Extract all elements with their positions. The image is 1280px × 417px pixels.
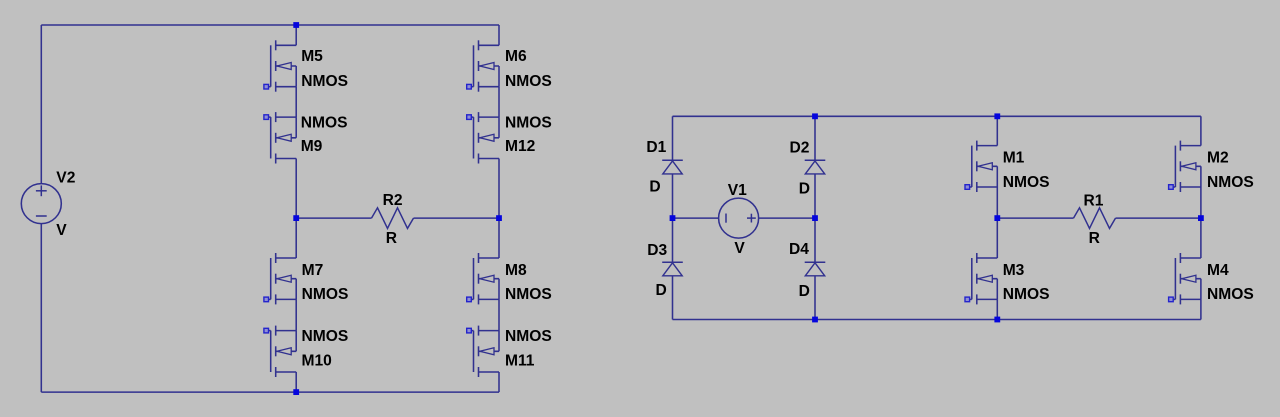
svg-text:D4: D4 — [789, 241, 809, 258]
svg-text:V: V — [734, 240, 745, 257]
svg-text:M1: M1 — [1003, 150, 1025, 167]
svg-text:M2: M2 — [1207, 150, 1229, 167]
svg-text:NMOS: NMOS — [505, 115, 552, 132]
svg-text:NMOS: NMOS — [505, 286, 552, 303]
svg-text:D2: D2 — [790, 139, 810, 156]
svg-text:M4: M4 — [1207, 262, 1229, 279]
svg-text:NMOS: NMOS — [1003, 174, 1050, 191]
svg-text:R: R — [386, 230, 397, 247]
svg-text:D: D — [649, 179, 660, 196]
svg-text:NMOS: NMOS — [505, 328, 552, 345]
svg-text:M10: M10 — [302, 353, 333, 370]
svg-text:M7: M7 — [302, 262, 324, 279]
svg-text:M11: M11 — [505, 353, 535, 370]
svg-text:V: V — [56, 222, 67, 239]
svg-text:NMOS: NMOS — [1207, 286, 1254, 303]
svg-text:D: D — [799, 180, 810, 197]
svg-text:D1: D1 — [646, 139, 666, 156]
svg-text:D: D — [799, 283, 810, 300]
svg-text:M6: M6 — [505, 48, 527, 65]
svg-text:NMOS: NMOS — [301, 115, 348, 132]
svg-text:NMOS: NMOS — [302, 286, 349, 303]
svg-text:D3: D3 — [647, 242, 667, 259]
svg-text:V2: V2 — [56, 170, 75, 187]
svg-text:NMOS: NMOS — [505, 73, 552, 90]
svg-text:R1: R1 — [1084, 193, 1104, 210]
svg-text:NMOS: NMOS — [1207, 174, 1254, 191]
svg-text:NMOS: NMOS — [1003, 286, 1050, 303]
svg-text:NMOS: NMOS — [301, 73, 348, 90]
svg-text:R: R — [1089, 230, 1100, 247]
svg-text:M9: M9 — [301, 138, 323, 155]
svg-text:M5: M5 — [301, 48, 323, 65]
svg-text:R2: R2 — [383, 192, 403, 209]
svg-text:NMOS: NMOS — [302, 328, 349, 345]
svg-text:M12: M12 — [505, 138, 536, 155]
svg-text:M8: M8 — [505, 262, 527, 279]
svg-text:V1: V1 — [728, 182, 747, 199]
svg-text:M3: M3 — [1003, 262, 1025, 279]
svg-text:D: D — [656, 282, 667, 299]
